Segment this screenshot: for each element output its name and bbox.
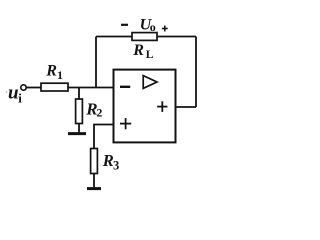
wire bbox=[96, 36, 132, 38]
scan speck bbox=[6, 91, 8, 93]
svg-text:R: R bbox=[102, 151, 114, 170]
wire bbox=[78, 124, 80, 133]
label RL bbox=[132, 42, 154, 61]
svg-text:3: 3 bbox=[113, 159, 119, 173]
wire bbox=[195, 37, 197, 108]
label R3 bbox=[102, 151, 120, 172]
op-amp inverting input marker bbox=[120, 86, 130, 88]
wire bbox=[176, 106, 197, 108]
Uo plus polarity sign bbox=[162, 26, 168, 32]
svg-text:R: R bbox=[132, 42, 144, 59]
resistor R3 bbox=[91, 149, 98, 174]
resistor R1 bbox=[41, 83, 68, 91]
Uo minus polarity sign bbox=[121, 24, 128, 26]
label R2 bbox=[85, 100, 102, 120]
ground bbox=[68, 132, 86, 135]
wire bbox=[26, 87, 41, 89]
svg-text:R: R bbox=[45, 63, 57, 80]
svg-text:i: i bbox=[18, 91, 22, 106]
wire bbox=[68, 87, 114, 89]
label ui bbox=[8, 83, 22, 106]
label R1 bbox=[45, 63, 63, 82]
ground bbox=[87, 187, 101, 190]
svg-text:u: u bbox=[8, 83, 19, 104]
wire bbox=[93, 174, 95, 188]
wire bbox=[95, 37, 97, 88]
wire bbox=[94, 125, 114, 149]
resistor RL bbox=[132, 33, 157, 41]
svg-text:2: 2 bbox=[96, 105, 102, 119]
wire bbox=[157, 36, 196, 38]
svg-text:L: L bbox=[146, 49, 154, 61]
input terminal u_i bbox=[21, 85, 26, 90]
op-amp output polarity marker bbox=[157, 101, 167, 112]
op-amp non-inverting input marker bbox=[120, 118, 131, 129]
svg-text:o: o bbox=[150, 20, 156, 34]
resistor R2 bbox=[76, 99, 83, 124]
op-amp U1 bbox=[114, 70, 176, 143]
svg-text:1: 1 bbox=[57, 68, 63, 82]
wire bbox=[78, 88, 80, 100]
op-amp triangle bbox=[143, 76, 157, 89]
label Uo bbox=[140, 16, 156, 33]
